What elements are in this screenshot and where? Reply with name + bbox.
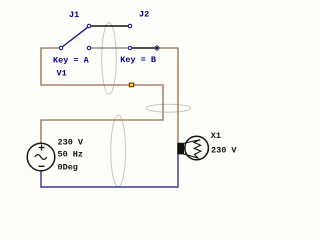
svg-text:50 Hz: 50 Hz bbox=[58, 150, 84, 160]
ellipse annotation E1 (tall, over traveller wires) bbox=[102, 23, 117, 95]
lamp X1 filament zigzag bbox=[183, 140, 201, 158]
AC source V1 sine mark bbox=[35, 155, 47, 160]
wire (black traveller, J1 top throw to J2 top throw) bbox=[91, 25, 129, 27]
switch J2 top throw pin circle bbox=[128, 24, 131, 27]
svg-text:0Deg: 0Deg bbox=[58, 163, 78, 173]
switch J1 top throw pin circle bbox=[87, 24, 90, 27]
switch J2 bottom throw pin circle bbox=[128, 46, 131, 49]
svg-text:J2: J2 bbox=[139, 10, 149, 20]
lamp X1 base (filled) bbox=[177, 143, 184, 155]
ellipse annotation E2 (tall, lower) bbox=[111, 115, 126, 186]
switch J1 blade bbox=[62, 27, 88, 47]
wire (brown net: V1+ hairpin route to J1 common) bbox=[41, 48, 163, 143]
switch J1 bottom throw pin circle bbox=[87, 46, 90, 49]
switch J2 common pin junction dot bbox=[155, 46, 159, 50]
lamp X1 bulb circle bbox=[185, 136, 209, 160]
AC source V1 minus mark bbox=[39, 165, 45, 167]
svg-text:230 V: 230 V bbox=[211, 146, 237, 156]
wire (brown: J2 common to lamp X1 pin 1) bbox=[159, 48, 178, 143]
switch J2 blade bbox=[132, 47, 155, 49]
wire (blue return: lamp X1 pin 2 to V1-) bbox=[41, 154, 178, 187]
svg-text:V1: V1 bbox=[57, 69, 67, 79]
on-page connector (yellow square) bbox=[129, 83, 133, 87]
AC source V1 body circle bbox=[27, 143, 55, 171]
switch J1 common pin circle bbox=[59, 46, 62, 49]
svg-text:230 V: 230 V bbox=[58, 138, 84, 148]
wire (gray traveller, J1 bottom throw to J2 bottom throw) bbox=[91, 47, 129, 49]
ellipse annotation E3 (flat, right) bbox=[146, 104, 191, 112]
svg-text:Key = A: Key = A bbox=[53, 56, 90, 66]
svg-text:Key = B: Key = B bbox=[120, 55, 156, 65]
AC source V1 plus mark bbox=[39, 145, 45, 151]
svg-text:J1: J1 bbox=[69, 10, 79, 20]
svg-text:X1: X1 bbox=[211, 131, 221, 141]
